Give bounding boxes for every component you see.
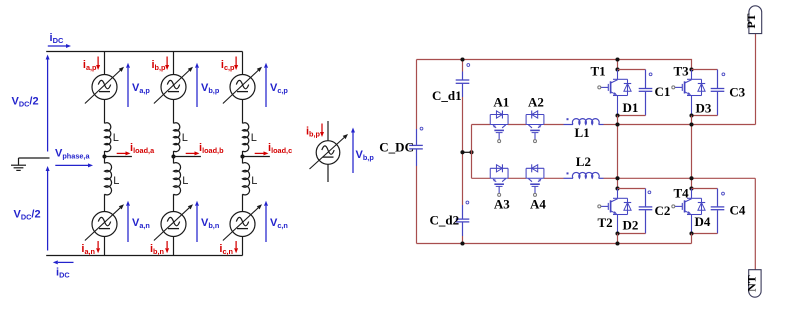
- capacitor C_DC: [409, 127, 423, 166]
- label L1: [575, 125, 590, 140]
- voltage arrow V_DC/2 lower: [46, 166, 50, 251]
- igbt T3: [672, 70, 705, 116]
- label D4: [695, 214, 711, 229]
- current arrow i_b,p: [165, 57, 169, 71]
- voltage arrow V_c,p: [264, 63, 268, 107]
- node phase b: [171, 154, 175, 158]
- label V_b,p: [201, 82, 220, 95]
- wire inductor to node (phase b): [173, 151, 175, 157]
- label V_DC/2 lower: [14, 209, 41, 222]
- label L (phase c upper): [251, 132, 257, 144]
- junction dot T3 emitter: [689, 113, 693, 117]
- svg-text:NT: NT: [744, 275, 758, 292]
- junction dot T1 emitter: [615, 113, 619, 117]
- label D2: [623, 218, 639, 233]
- igbt T4: [672, 189, 705, 234]
- inductor L (phase c lower): [243, 157, 250, 195]
- label T2: [598, 215, 613, 230]
- wire output node row2: [618, 177, 756, 179]
- svg-text:C_d1: C_d1: [432, 88, 462, 103]
- junction dot rail-T1: [615, 57, 619, 61]
- label i_c,p: [221, 59, 235, 72]
- svg-text:PT: PT: [744, 13, 758, 28]
- wire aux leg to A3: [472, 177, 491, 179]
- svg-text:C2: C2: [655, 203, 671, 218]
- svg-text:C_d2: C_d2: [430, 213, 460, 228]
- svg-text:L: L: [251, 175, 257, 187]
- label T1: [591, 64, 606, 79]
- label i_b,p standalone: [306, 126, 321, 139]
- label D1: [623, 100, 639, 115]
- ac source Va,p: [85, 67, 124, 104]
- igbt T1: [598, 70, 631, 116]
- junction dot clamp row1: [689, 122, 693, 126]
- current arrow i_b,p standalone: [320, 124, 324, 138]
- svg-text:D2: D2: [623, 218, 639, 233]
- label i_b,n: [150, 243, 164, 256]
- label L (phase b upper): [182, 132, 188, 144]
- label L (phase b lower): [182, 175, 188, 187]
- junction dot T4 emitter: [689, 231, 693, 235]
- junction dot midpoint left: [460, 150, 464, 154]
- current arrow i_load,b: [186, 151, 200, 155]
- svg-text:L1: L1: [575, 125, 590, 140]
- wire lower source to rail (phase c): [242, 237, 244, 256]
- inductor L (phase a upper): [105, 123, 111, 152]
- wire inductor to node (phase a): [104, 151, 106, 157]
- label i_b,p: [151, 59, 166, 72]
- label T3: [674, 64, 690, 79]
- wire T4 to bottom rail: [691, 234, 693, 244]
- wire A3 to A4: [508, 177, 526, 179]
- wire auxiliary leg vertical: [471, 125, 473, 179]
- junction dot node A row2: [615, 176, 619, 180]
- svg-text:L: L: [251, 132, 257, 144]
- label V_b,p standalone: [356, 149, 375, 162]
- wire aux leg to A1: [472, 124, 491, 126]
- svg-text:D4: D4: [695, 214, 711, 229]
- label L2: [576, 154, 591, 169]
- label C3: [729, 85, 745, 100]
- junction dot bottom rail at C_d2: [460, 241, 464, 245]
- capacitor C3: [692, 70, 725, 116]
- svg-text:C1: C1: [655, 84, 671, 99]
- label C_DC: [379, 139, 414, 154]
- svg-text:D3: D3: [696, 101, 712, 116]
- wire inductor to lower source (phase b): [173, 194, 175, 211]
- inductor L2: [564, 172, 604, 178]
- label V_c,p: [270, 82, 288, 95]
- capacitor C2: [618, 189, 653, 234]
- capacitor C4: [692, 189, 725, 234]
- wire bottom DC rail: [46, 255, 242, 257]
- current arrow i_a,n: [96, 241, 100, 253]
- wire source to inductor (phase c): [242, 100, 244, 124]
- wire rail to T1: [617, 60, 619, 70]
- svg-text:A2: A2: [528, 95, 544, 110]
- wire C_d1 to midpoint: [462, 97, 464, 152]
- wire lower source to rail (phase b): [173, 237, 175, 256]
- svg-text:C3: C3: [729, 85, 745, 100]
- label C2: [655, 203, 671, 218]
- voltage arrow V_phase,a: [55, 163, 93, 167]
- igbt A2: [526, 111, 544, 143]
- label C1: [655, 84, 671, 99]
- voltage arrow V_b,p standalone: [351, 128, 355, 174]
- node phase c: [240, 154, 244, 158]
- label A2: [528, 95, 544, 110]
- current arrow i_c,n: [234, 241, 238, 253]
- wire load stub (phase b): [174, 156, 201, 158]
- svg-text:L: L: [182, 132, 188, 144]
- ac source Vc,n: [223, 204, 262, 240]
- voltage arrow V_a,p: [126, 63, 130, 107]
- wire inductor to lower source (phase a): [104, 194, 106, 211]
- wire load stub (phase a): [105, 156, 132, 158]
- wire source to inductor (phase a): [104, 100, 106, 124]
- current arrow i_a,p: [96, 57, 100, 71]
- wire branch a upper-source lead: [104, 52, 106, 75]
- wire T3 emitter to T4: [691, 116, 693, 189]
- wire load stub (phase c): [243, 156, 270, 158]
- igbt T2: [598, 189, 631, 234]
- label i_DC top: [50, 32, 64, 45]
- wire branch b upper-source lead: [173, 52, 175, 75]
- wire left leg upper: [416, 60, 418, 130]
- current arrow i_load,c: [255, 151, 269, 155]
- label C_d2: [430, 213, 460, 228]
- wire C_d1 upper lead: [462, 60, 464, 72]
- ground: [11, 158, 50, 170]
- wire node B to NT: [754, 178, 756, 269]
- junction dot T3 collector: [689, 67, 693, 71]
- label D3: [696, 101, 712, 116]
- label V_DC/2 upper: [12, 96, 39, 109]
- wire left leg lower: [416, 166, 418, 244]
- wire A1 to A2: [508, 124, 526, 126]
- svg-text:L: L: [182, 175, 188, 187]
- label L (phase c lower): [251, 175, 257, 187]
- node phase a: [102, 154, 106, 158]
- capacitor C1: [618, 70, 653, 116]
- wire L1 to output node: [604, 124, 618, 126]
- current arrow i_c,p: [234, 57, 238, 71]
- wire source to inductor (phase b): [173, 100, 175, 124]
- current arrow i_load,a: [117, 151, 131, 155]
- wire bottom rail (right circuit): [417, 243, 692, 245]
- igbt A4: [526, 164, 544, 196]
- voltage arrow V_c,n: [264, 201, 268, 242]
- svg-text:T1: T1: [591, 64, 606, 79]
- capacitor C_d2: [456, 201, 470, 236]
- wire A2 to L1: [544, 124, 564, 126]
- igbt A3: [490, 164, 508, 196]
- capacitor C_d1: [456, 64, 470, 97]
- terminal NT: [744, 270, 761, 298]
- svg-text:L: L: [113, 175, 119, 187]
- wire C_d2 lower lead: [462, 236, 464, 244]
- label C_d1: [432, 88, 462, 103]
- svg-text:A4: A4: [530, 197, 546, 212]
- voltage arrow V_a,n: [126, 201, 130, 242]
- wire top DC rail: [46, 51, 242, 53]
- svg-text:C_DC: C_DC: [379, 139, 414, 154]
- wire middle source top lead: [327, 121, 329, 141]
- ac source Va,n: [85, 204, 124, 240]
- voltage arrow V_DC/2 upper: [46, 55, 50, 152]
- wire L2 to output node: [604, 177, 618, 179]
- label i_c,n: [219, 243, 233, 256]
- wire T2 to bottom rail: [617, 234, 619, 244]
- svg-text:C4: C4: [730, 203, 746, 218]
- junction dot T2 emitter: [615, 231, 619, 235]
- wire midpoint to C_d2: [462, 152, 464, 205]
- label A1: [493, 95, 509, 110]
- svg-text:L: L: [113, 132, 119, 144]
- ac source Vb,p: [154, 67, 193, 104]
- svg-text:T3: T3: [674, 64, 690, 79]
- voltage arrow V_b,p: [195, 63, 199, 107]
- label i_a,n: [81, 243, 95, 256]
- svg-text:T4: T4: [674, 186, 690, 201]
- terminal PT: [744, 6, 762, 34]
- wire node A to PT: [755, 34, 757, 125]
- label i_DC bottom: [56, 267, 70, 280]
- wire inductor to node (phase c): [242, 151, 244, 157]
- label L (phase a lower): [113, 175, 119, 187]
- inductor L1: [564, 118, 604, 124]
- svg-text:A1: A1: [493, 95, 509, 110]
- wire T1 emitter to T2: [617, 116, 619, 189]
- label i_load,a: [130, 142, 155, 155]
- label V_c,n: [270, 217, 288, 230]
- wire inductor to lower source (phase c): [242, 194, 244, 211]
- ac source Vb,n: [154, 204, 193, 240]
- svg-text:D1: D1: [623, 100, 639, 115]
- inductor L (phase b lower): [174, 157, 181, 195]
- wire top rail (right circuit): [417, 60, 692, 70]
- svg-text:T2: T2: [598, 215, 613, 230]
- junction dot clamp row2: [689, 176, 693, 180]
- current arrow i_DC top: [48, 44, 71, 48]
- label C4: [730, 203, 746, 218]
- junction dot node A row1: [615, 122, 619, 126]
- label V_phase,a: [55, 147, 90, 160]
- ac source V_b,p standalone: [310, 134, 349, 169]
- ac source Vc,p: [223, 67, 262, 104]
- junction dot top rail at C_d1: [460, 57, 464, 61]
- label V_b,n: [201, 217, 219, 230]
- wire lower source to rail (phase a): [104, 237, 106, 256]
- igbt A1: [490, 111, 508, 143]
- wire midpoint link: [463, 151, 472, 153]
- svg-text:A3: A3: [494, 197, 510, 212]
- label i_a,p: [83, 59, 97, 72]
- voltage arrow V_b,n: [195, 201, 199, 242]
- wire A4 to L2: [544, 177, 564, 179]
- inductor L (phase b upper): [174, 123, 180, 152]
- label L (phase a upper): [113, 132, 119, 144]
- wire branch c upper-source lead: [242, 52, 244, 75]
- label T4: [674, 186, 690, 201]
- wire output node row1: [618, 124, 756, 126]
- current arrow i_b,n: [165, 241, 169, 253]
- inductor L (phase c upper): [243, 123, 249, 152]
- junction dot bottom rail main leg: [615, 241, 619, 245]
- inductor L (phase a lower): [105, 157, 112, 195]
- label V_a,n: [132, 217, 150, 230]
- label V_a,p: [132, 82, 150, 95]
- label A3: [494, 197, 510, 212]
- label i_load,c: [268, 142, 292, 155]
- current arrow i_DC bottom: [53, 260, 74, 264]
- junction dot T2 collector: [615, 186, 619, 190]
- junction dot midpoint right: [469, 150, 473, 154]
- wire middle source bottom lead: [327, 164, 329, 182]
- junction dot T1 collector: [615, 67, 619, 71]
- junction dot T4 collector: [689, 186, 693, 190]
- label A4: [530, 197, 546, 212]
- label i_load,b: [199, 142, 224, 155]
- svg-text:L2: L2: [576, 154, 591, 169]
